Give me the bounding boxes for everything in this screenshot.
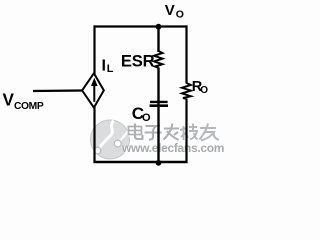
wire: left branch vertical top (top rail to current source) (93, 25, 95, 74)
wire: top rail (VO net) (94, 25, 188, 27)
wire: bottom rail (94, 161, 188, 163)
resistor ESR zigzag (154, 51, 163, 68)
svg-text:www.elecfans.com: www.elecfans.com (121, 141, 224, 155)
capacitor CO bottom plate (150, 104, 168, 107)
node bottom junction dot (156, 160, 162, 166)
wire: right branch top (top rail to RO) (185, 25, 187, 83)
svg-text:O: O (200, 85, 208, 96)
wire: left branch vertical bottom (current source to bottom rail) (93, 107, 95, 163)
wire: VCOMP lead (33, 89, 83, 92)
svg-text:O: O (176, 9, 184, 21)
current source IL: diamond body (82, 73, 104, 107)
capacitor CO top plate (150, 101, 168, 103)
wire: CO plate crossing + bottom lead to bottom rail (157, 100, 159, 163)
node VO junction dot (156, 24, 162, 30)
label VCOMP (3, 90, 44, 112)
label RO (192, 79, 209, 96)
label CO (132, 104, 151, 124)
label VO (165, 2, 184, 21)
wire: ESR branch top stub (VO node to ESR) (157, 27, 159, 53)
svg-text:COMP: COMP (14, 101, 44, 112)
svg-text:ESR: ESR (121, 51, 155, 70)
wire: right branch bottom (RO to bottom rail) (185, 99, 187, 164)
resistor RO zigzag (182, 83, 191, 99)
svg-text:V: V (165, 2, 175, 19)
label IL (102, 58, 114, 76)
svg-text:I: I (102, 58, 106, 75)
watermark url text www.elecfans.com (121, 141, 225, 156)
watermark Chinese text 电子发烧友 (approximated strokes, embossed) (129, 124, 221, 142)
wire: ESR to CO (157, 68, 159, 102)
svg-text:L: L (107, 63, 114, 75)
svg-text:V: V (3, 90, 15, 110)
watermark logo (elecfans circle) (91, 120, 131, 159)
current source IL: arrow (points up) (91, 78, 98, 102)
svg-text:O: O (142, 112, 151, 124)
